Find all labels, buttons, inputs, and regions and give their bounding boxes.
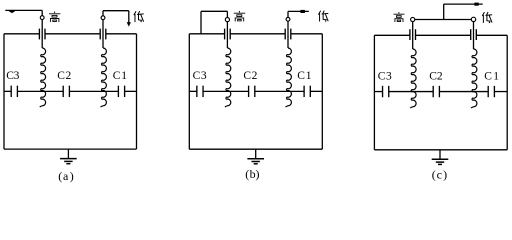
svg-text:C: C — [484, 70, 492, 82]
svg-text:1: 1 — [306, 70, 312, 82]
svg-text:c: c — [437, 167, 442, 181]
svg-text:3: 3 — [14, 70, 20, 82]
svg-text:1: 1 — [121, 70, 127, 82]
svg-text:(: ( — [432, 167, 436, 181]
svg-text:3: 3 — [201, 70, 207, 82]
svg-text:1: 1 — [493, 70, 499, 82]
svg-text:(: ( — [58, 169, 62, 183]
svg-text:): ) — [70, 169, 74, 183]
svg-text:C: C — [378, 70, 386, 82]
svg-text:C: C — [243, 70, 251, 82]
svg-text:a: a — [63, 169, 69, 183]
svg-text:2: 2 — [252, 70, 258, 82]
svg-text:): ) — [443, 167, 447, 181]
svg-text:(: ( — [245, 167, 249, 181]
svg-text:C: C — [193, 70, 201, 82]
svg-text:2: 2 — [437, 70, 443, 82]
svg-text:C: C — [297, 70, 305, 82]
svg-text:): ) — [256, 167, 260, 181]
svg-text:3: 3 — [386, 70, 392, 82]
svg-text:C: C — [57, 70, 65, 82]
svg-text:C: C — [113, 70, 121, 82]
svg-text:2: 2 — [66, 70, 72, 82]
